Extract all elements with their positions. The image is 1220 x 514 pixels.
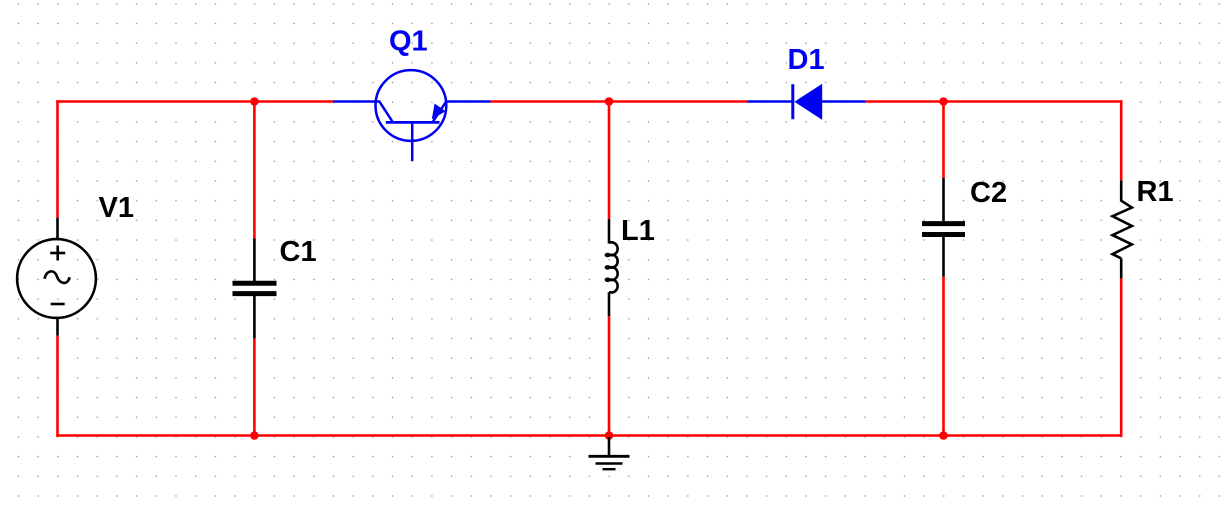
junction node top C2 <box>939 97 948 106</box>
svg-text:L1: L1 <box>621 215 655 247</box>
wire left rail upper <box>56 100 59 218</box>
wire C2 branch lower <box>942 277 945 436</box>
diode D1 triangle <box>794 84 822 120</box>
resistor R1 <box>1113 180 1132 278</box>
svg-text:V1: V1 <box>99 192 134 224</box>
wire right rail upper <box>1120 100 1123 180</box>
wire C2 branch upper <box>942 102 945 179</box>
svg-text:C1: C1 <box>280 236 317 268</box>
wire L1 branch upper <box>608 102 611 220</box>
voltage source V1 <box>17 218 96 336</box>
svg-text:Q1: Q1 <box>389 26 428 58</box>
inductor L1 <box>609 219 618 316</box>
capacitor C2 <box>922 178 965 277</box>
svg-text:D1: D1 <box>788 44 825 76</box>
wire bottom rail <box>56 434 1122 437</box>
svg-text:R1: R1 <box>1137 176 1174 208</box>
junction node bottom ground <box>605 431 614 440</box>
wire right rail lower <box>1120 278 1123 436</box>
ground <box>589 437 630 469</box>
diode D1 <box>748 84 866 119</box>
wire C1 branch lower <box>253 338 256 435</box>
wire top right segment <box>865 100 1122 103</box>
inductor L1 loop knobs <box>605 253 611 282</box>
capacitor C1 <box>233 239 277 339</box>
wire top middle segment <box>490 100 747 103</box>
transistor Q1 emitter arrow <box>432 104 446 120</box>
junction node bottom C1 <box>250 431 259 440</box>
wire C1 branch upper <box>253 102 256 239</box>
svg-text:C2: C2 <box>970 177 1007 209</box>
transistor Q1 <box>333 70 490 161</box>
junction node top C1 <box>250 97 259 106</box>
junction node bottom C2 <box>939 431 948 440</box>
wire L1 branch lower <box>608 316 611 435</box>
junction node top L1 <box>605 97 614 106</box>
wire left rail lower <box>56 336 59 437</box>
wire top left segment <box>56 100 333 103</box>
